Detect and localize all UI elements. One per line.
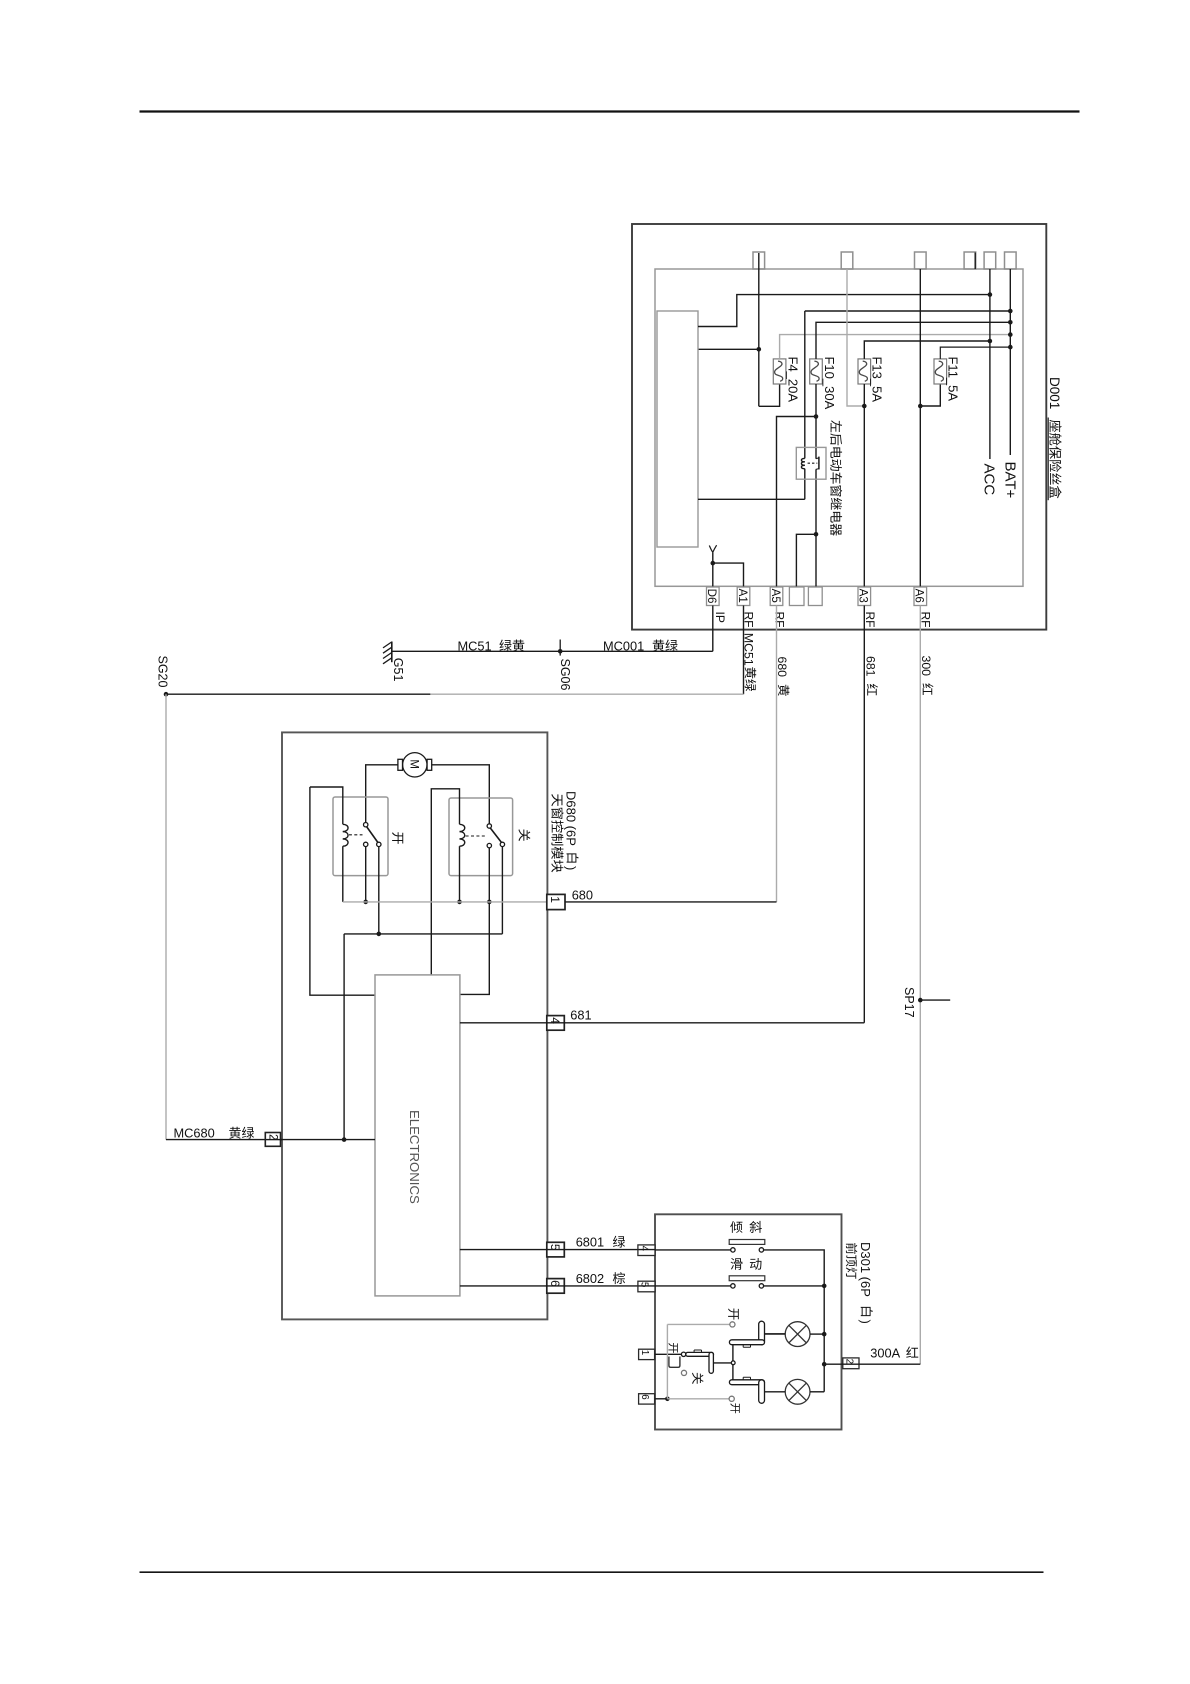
- pin 1 of D680: [547, 894, 565, 909]
- wire: BAT+ feed: [1009, 269, 1011, 455]
- svg-text:300A: 300A: [870, 1345, 900, 1360]
- upper off contact: [730, 1322, 735, 1327]
- svg-text:A5: A5: [769, 589, 782, 603]
- wire: squiggle to pin D6: [712, 552, 714, 587]
- switch node circle: [731, 1361, 735, 1365]
- fuse F10_30A: [810, 359, 823, 384]
- pin A5 of D001: [769, 587, 783, 606]
- wire: branch to pin A1: [713, 563, 744, 587]
- label 前顶灯: [846, 1243, 857, 1254]
- idle contact circle: [681, 1370, 686, 1375]
- label MC51 绿黄: [458, 638, 525, 653]
- svg-text:F13_5A: F13_5A: [869, 357, 884, 403]
- wire: relay out to spare pin1: [796, 534, 816, 587]
- svg-text:SG20: SG20: [156, 656, 170, 688]
- label 681 红: [863, 656, 878, 695]
- splice SG06 tick: [559, 640, 561, 656]
- node: rail/pin2: [822, 1362, 827, 1367]
- wire: pin6 gray riser: [666, 1324, 668, 1398]
- svg-text:681: 681: [863, 656, 877, 677]
- node: coil feed/BAT+: [1008, 309, 1013, 314]
- svg-text:): ): [564, 866, 579, 870]
- wire: upper slider to node: [732, 1345, 734, 1361]
- upper slider contact (horizontal pill): [729, 1340, 764, 1345]
- svg-text:D680 (6P: D680 (6P: [564, 791, 579, 846]
- slide switch contacts: [655, 1285, 731, 1287]
- node: D6/A1 branch: [711, 561, 716, 566]
- motor M circle: [403, 753, 427, 777]
- node: F10/BAT+: [1008, 320, 1013, 325]
- wire: pin A3 down net 681: [863, 606, 865, 1023]
- tilt switch contacts: [655, 1249, 731, 1251]
- ELECTRONICS box: [375, 975, 460, 1296]
- wire: F13 top to ACC rail: [864, 341, 990, 359]
- label 关 (lamp switch): [692, 1373, 703, 1384]
- relay2 blade: [490, 828, 501, 843]
- motor brush left: [398, 759, 403, 770]
- splice SP17: [918, 998, 923, 1003]
- fuse box top connector tabs: [753, 252, 1016, 269]
- pin spare of D001: [789, 587, 804, 606]
- wire: relay2 coil feed: [431, 789, 459, 975]
- pin D6 of D001: [705, 587, 719, 606]
- svg-text:IP: IP: [713, 612, 727, 623]
- svg-text:ELECTRONICS: ELECTRONICS: [407, 1110, 422, 1204]
- svg-text:MC51: MC51: [458, 638, 492, 653]
- label 300 红: [919, 656, 934, 695]
- label 6801 绿: [576, 1235, 625, 1250]
- node: F13/ACC: [988, 339, 993, 344]
- node SG20: [164, 692, 169, 697]
- wire: motor left to relay1 common: [366, 765, 398, 823]
- node: lamp1/rail: [822, 1332, 827, 1337]
- svg-text:300: 300: [919, 656, 933, 677]
- pin 4 of D301: [638, 1245, 655, 1256]
- label 开 (upper): [728, 1308, 739, 1319]
- relay1 blade: [367, 827, 378, 843]
- relay1 dashed link: [349, 834, 363, 836]
- node: F13 leg junction: [862, 404, 867, 409]
- wire: node to lower slider: [732, 1365, 734, 1380]
- svg-text:1: 1: [639, 1350, 650, 1355]
- node: bus/MC680: [342, 1137, 347, 1142]
- label D301 (6P 白): [858, 1242, 873, 1324]
- wire: SP17 stub: [920, 999, 950, 1001]
- svg-text:4: 4: [639, 1246, 650, 1252]
- relay2 lower contacts: [487, 843, 491, 847]
- pin 5 of D680: [547, 1242, 565, 1257]
- label 开 (lower): [730, 1403, 739, 1413]
- wire: busbar step to ACC rail: [698, 295, 990, 327]
- wire: common bus y934: [344, 933, 502, 935]
- pin spare of D001: [808, 587, 822, 606]
- wire: ground run G51 to D6: [392, 650, 713, 652]
- bracket icon near pin1: [669, 1357, 680, 1368]
- wire: tab1 vertical feed: [758, 253, 760, 406]
- node: relay1 contact/net680: [363, 900, 368, 905]
- wire: relay2 right contact down: [501, 847, 503, 934]
- wire: pin A6 down net 300 (gray): [919, 606, 921, 1365]
- node: relay2 contact/net680: [487, 900, 492, 905]
- svg-text:A3: A3: [857, 589, 870, 603]
- svg-text:BAT+: BAT+: [1001, 462, 1018, 499]
- pin 2 of D680: [265, 1133, 282, 1147]
- svg-text:ACC: ACC: [980, 464, 997, 496]
- relay coil: [801, 458, 804, 461]
- wire: F10 top to BAT+ rail: [816, 322, 1010, 359]
- node SG06: [558, 649, 563, 654]
- svg-text:F10_30A: F10_30A: [822, 357, 837, 410]
- node: F4/BAT+ rail: [1008, 332, 1013, 337]
- pin 1 of D301: [639, 1349, 655, 1359]
- node: F10 leg / A5 branch: [814, 414, 819, 419]
- label MC680 黄绿: [174, 1126, 255, 1141]
- relay1 (开) box: [333, 797, 388, 876]
- label 天窗控制模块: [551, 794, 562, 806]
- svg-text:D001: D001: [1047, 377, 1062, 409]
- label 300A 红: [870, 1345, 918, 1360]
- lamp switch blade vertical pill: [709, 1352, 713, 1373]
- relay2 coil: [460, 824, 465, 831]
- svg-text:6: 6: [639, 1394, 650, 1400]
- lower off contact: [729, 1396, 734, 1401]
- svg-text:MC001: MC001: [603, 638, 644, 653]
- node: junction tab1/busbar: [757, 347, 762, 352]
- svg-text:680: 680: [572, 887, 593, 902]
- label MC001 黄绿: [603, 638, 678, 653]
- svg-text:680: 680: [775, 657, 789, 678]
- wire: busbar rect to tab1: [698, 348, 759, 350]
- wire: F4 top to BAT+ rail (gray): [780, 335, 1011, 359]
- label 6802 棕: [576, 1271, 625, 1286]
- label 滑动: [731, 1258, 743, 1270]
- label D680 (6P 白): [564, 791, 579, 870]
- node: F11/BAT+: [1008, 345, 1013, 350]
- net 680 internal (gray): [343, 901, 548, 903]
- pin1 contact circle: [681, 1352, 685, 1356]
- svg-text:M: M: [407, 759, 419, 769]
- svg-text:SG06: SG06: [558, 659, 572, 691]
- node: relay out junction: [814, 532, 819, 537]
- svg-text:G51: G51: [391, 658, 405, 682]
- page top rule: [140, 110, 1080, 112]
- wire: MC680 run from SG20 to pin 2 and into module: [166, 1139, 375, 1141]
- wire: tab4 stub: [974, 253, 976, 270]
- label 倾斜: [730, 1221, 742, 1233]
- svg-text:D6: D6: [705, 589, 718, 604]
- wire: F13 bottom to pin A3: [863, 384, 865, 587]
- svg-text:6802: 6802: [576, 1271, 604, 1286]
- svg-text:): ): [858, 1320, 873, 1324]
- wire: F10 bottom through relay contact: [815, 384, 817, 459]
- wire: relay1 left contact to net680: [365, 847, 367, 902]
- sunroof control module D680 box: [282, 732, 547, 1319]
- svg-text:5: 5: [639, 1282, 650, 1288]
- wire: net 300A to splice: [859, 1363, 920, 1365]
- wire: relay2 coil to net680: [459, 846, 461, 902]
- wire: branch to pin A5: [777, 417, 817, 588]
- lower slider notch: [743, 1377, 750, 1379]
- wire: MC51 run (gray part): [430, 693, 743, 695]
- lamp1 feed from slider: [765, 1333, 786, 1335]
- pin 6 of D301: [639, 1394, 655, 1404]
- label 左后电动车窗继电器: [831, 420, 842, 432]
- svg-text:RF: RF: [863, 612, 877, 628]
- pin 6 of D680: [547, 1279, 565, 1294]
- relay1 coil: [343, 824, 348, 831]
- motor brush right: [427, 759, 432, 770]
- relay2 dashed link: [466, 835, 486, 837]
- switch squiggle above pin D6: [709, 545, 716, 552]
- wire: F11 bottom leg: [920, 384, 940, 406]
- label 关 (relay2): [518, 829, 530, 841]
- svg-text:681: 681: [570, 1007, 591, 1022]
- wire: F4 bottom leg: [759, 384, 780, 406]
- upper slider notch: [743, 1345, 750, 1347]
- wire: rail to pin2 / net 300A: [824, 1363, 859, 1365]
- fuse F4_20A: [773, 359, 786, 384]
- svg-text:A6: A6: [913, 589, 926, 603]
- svg-text:MC680: MC680: [174, 1126, 215, 1141]
- wire: net 680 to fuse A5: [565, 901, 777, 903]
- relay2 (关) box: [449, 798, 513, 876]
- lamp 1: [785, 1322, 810, 1347]
- wire: bus down to MC680: [343, 934, 345, 1140]
- ground G51 symbol: [383, 642, 392, 664]
- node: pin6 branch: [665, 1397, 670, 1402]
- wire: gray to lower off contact: [667, 1398, 729, 1400]
- svg-text:F4_20A: F4_20A: [786, 357, 801, 403]
- pin A6 of D001: [913, 587, 927, 606]
- wire: relay1 right contact down: [378, 847, 380, 934]
- wire: coil feed to BAT+ rail: [805, 310, 1011, 312]
- busbar tall rectangle: [657, 311, 698, 547]
- blade notch: [694, 1350, 701, 1352]
- pin 2 of D301: [843, 1358, 859, 1369]
- upper slider contact (vertical pill): [759, 1321, 765, 1345]
- relay1 common contact: [364, 823, 368, 827]
- pin 5 of D301: [638, 1281, 655, 1292]
- wire: lamp1 leads: [765, 1333, 786, 1335]
- relay2 common contact: [487, 824, 491, 828]
- label 680 黄: [775, 657, 790, 696]
- label 开 (near pin1): [668, 1343, 677, 1353]
- wire: busbar to relay coil bottom: [698, 498, 805, 500]
- wire: relay coil feed vertical: [804, 311, 806, 458]
- wire: tab3 to pin A6: [919, 269, 921, 587]
- fuse F11_5A: [934, 359, 947, 384]
- wire: lamp2 leads: [765, 1391, 786, 1393]
- node: relay1 right/common bus: [377, 932, 382, 937]
- fuse box D001 outer box: [632, 224, 1046, 630]
- pin A3 of D001: [857, 587, 871, 606]
- wire: ACC feed: [989, 269, 991, 459]
- relay actuator dashed link: [808, 462, 818, 464]
- lamp switch blade horizontal pill: [686, 1352, 714, 1356]
- lamp 2: [785, 1379, 810, 1404]
- node: step/ACC rail: [988, 292, 993, 297]
- wire: gray to upper off contact: [667, 1323, 729, 1325]
- svg-text:SP17: SP17: [902, 987, 916, 1018]
- node: relay2 coil/net680: [457, 900, 462, 905]
- wire: pin A1 down: [743, 606, 745, 695]
- wire: relay1 coil feed: [310, 787, 343, 824]
- fuse box D001 inner box: [655, 269, 1023, 586]
- wire: slide switch to lamp rail: [764, 1285, 825, 1287]
- svg-text:6801: 6801: [576, 1235, 604, 1250]
- svg-text:F11_5A: F11_5A: [945, 357, 960, 402]
- svg-text:2: 2: [843, 1359, 854, 1364]
- wire: tab2 gray feed: [847, 269, 864, 406]
- label 开 (relay1): [392, 832, 403, 844]
- node: slide/lamp rail: [822, 1284, 827, 1289]
- wire: relay1 coil feed to electronics: [310, 787, 375, 995]
- wire: relay out to spare pin2: [815, 534, 817, 587]
- svg-text:1: 1: [548, 896, 562, 903]
- wire: MC51 run to SG20 (black part): [166, 693, 430, 695]
- wire: motor right to relay2 common: [432, 765, 490, 824]
- pin A1 of D001: [736, 587, 750, 606]
- fuse F13_5A: [858, 359, 871, 384]
- wire: pin1 to contact: [655, 1353, 681, 1355]
- node: tab3/F11 branch: [918, 404, 923, 409]
- page bottom rule: [140, 1571, 1044, 1573]
- wire: blade to node: [713, 1362, 731, 1364]
- wire: tilt switch to lamp rail: [764, 1250, 825, 1392]
- pin 4 of D680: [547, 1016, 565, 1031]
- wire: net 6801: [460, 1249, 638, 1251]
- wire: relay1 coil to net680: [342, 846, 344, 902]
- wire: net 681: [460, 1022, 864, 1024]
- relay1 lower contacts: [364, 842, 368, 846]
- wire: pin A5 down net 680 (gray): [776, 606, 778, 902]
- label MC51黄绿 (A1 wire): [742, 633, 757, 691]
- relay contact bar: [818, 457, 820, 470]
- tilt switch bar: [729, 1240, 765, 1245]
- svg-text:D301 (6P: D301 (6P: [858, 1242, 873, 1297]
- wire: pin D6 down: [712, 606, 714, 652]
- wire: net 6802: [460, 1285, 638, 1287]
- wire: SG20 vertical (gray): [165, 694, 167, 1139]
- svg-text:A1: A1: [736, 589, 749, 603]
- svg-text:2: 2: [266, 1134, 278, 1140]
- wire: relay2 left contact to electronics: [460, 848, 489, 995]
- slide switch bar: [729, 1276, 765, 1281]
- label D001 座舱保险丝盒: [1047, 377, 1062, 500]
- lower slider contact (vertical pill): [759, 1380, 765, 1404]
- wire: F11 top to BAT+ rail: [940, 347, 1010, 359]
- svg-text:MC51: MC51: [742, 633, 756, 666]
- dome lamp module D301 box: [655, 1214, 842, 1429]
- wire: pin6 to junction: [655, 1398, 667, 1400]
- svg-text:RF: RF: [773, 612, 787, 628]
- lower slider contact (horizontal pill): [729, 1380, 764, 1385]
- relay 左后电动车窗继电器 box: [796, 447, 826, 479]
